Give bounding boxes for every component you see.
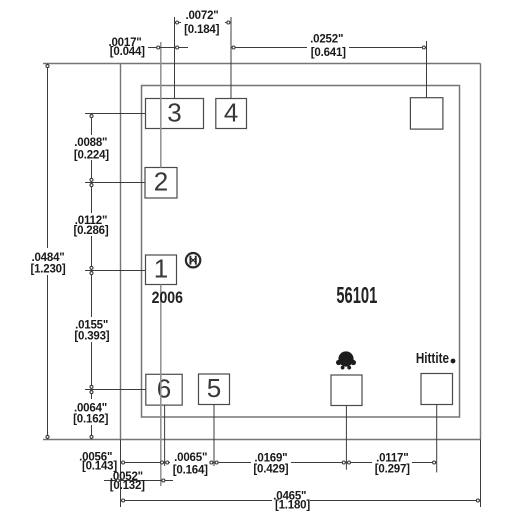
- dim line .0052 with tails: [104, 480, 173, 482]
- dimension text .0169 [0.429]: [251, 452, 291, 474]
- svg-text:3: 3: [167, 97, 181, 127]
- dimension text .0072 [0.184]: [181, 21, 225, 36]
- package outer edge (with top/bottom extension to left dimension): [43, 63, 481, 65]
- pad 1: [146, 254, 177, 285]
- arrows dim .0484: [46, 65, 49, 68]
- arrows dim .0072: [176, 21, 179, 24]
- arrows dim .0465: [122, 499, 125, 502]
- extension pad5 center: [213, 405, 215, 467]
- dim line .0465: [121, 500, 481, 502]
- extension pad6 center: [164, 405, 166, 466]
- extension pad top-right center: [426, 41, 428, 98]
- arrows dim .0052 (outside): [116, 479, 119, 482]
- dimension text .0465 [1.180]: [272, 490, 310, 510]
- dimension text .0088 [0.224]: [72, 135, 111, 160]
- svg-text:5: 5: [207, 373, 221, 403]
- extension pad bottom-right center: [436, 405, 438, 473]
- dim line .0484: [47, 64, 49, 440]
- svg-text:[0.429]: [0.429]: [253, 463, 288, 475]
- dimension text .0112 [0.286]: [72, 213, 111, 236]
- dimension text .0064 [0.162]: [69, 399, 112, 425]
- pad 2: [145, 167, 177, 198]
- arrows dim .0117: [348, 461, 351, 464]
- extension outer-left below: [120, 440, 122, 508]
- arrows dim .0065: [166, 461, 169, 464]
- centerline pad2 (upper): [160, 42, 162, 168]
- svg-text:[0.162]: [0.162]: [73, 413, 108, 425]
- pad top-right: [410, 98, 443, 129]
- arrows left chain: [90, 115, 93, 118]
- svg-text:[1.180]: [1.180]: [275, 500, 310, 512]
- extension pad4 center: [230, 17, 232, 99]
- svg-text:Hittite: Hittite: [416, 350, 450, 367]
- svg-text:56101: 56101: [336, 284, 377, 309]
- svg-text:.0065": .0065": [174, 452, 207, 464]
- svg-text:1: 1: [154, 254, 168, 284]
- svg-text:2006: 2006: [152, 289, 183, 307]
- arrows dim .0252: [232, 46, 235, 49]
- pad bottom-right: [421, 374, 453, 405]
- centerline pad1 (lower): [160, 285, 162, 487]
- svg-text:.0484": .0484": [31, 252, 64, 264]
- pad 4: [216, 97, 247, 128]
- arrows dim .0056: [122, 461, 125, 464]
- row extension pad1: [85, 270, 145, 272]
- extension outer-right below: [480, 440, 482, 508]
- row extension pad6: [85, 389, 145, 391]
- pad bottom-middle: [331, 375, 362, 406]
- arrows dim .0017 (outside): [157, 46, 160, 49]
- pad 5: [199, 373, 230, 404]
- bottom chain dim line (.0056/.0065/.0169/.0117): [121, 462, 437, 464]
- pad 6: [146, 374, 182, 406]
- extension pad bottom-middle center: [345, 406, 347, 470]
- svg-text:4: 4: [224, 97, 238, 127]
- svg-text:[0.044]: [0.044]: [110, 46, 145, 58]
- svg-text:.0252": .0252": [310, 33, 343, 45]
- row extension pad3: [85, 113, 145, 115]
- svg-text:2: 2: [154, 167, 168, 197]
- Hittite circled-H logo mark: [186, 253, 200, 267]
- row extension pad2: [85, 182, 145, 184]
- svg-text:[0.393]: [0.393]: [74, 331, 109, 343]
- pad 3: [146, 97, 204, 128]
- dimension text .0484 [1.230]: [27, 248, 73, 275]
- svg-text:[0.224]: [0.224]: [74, 149, 109, 161]
- die marking dot logo: [336, 351, 356, 369]
- svg-text:[1.230]: [1.230]: [30, 264, 65, 276]
- svg-text:.0088": .0088": [74, 137, 107, 149]
- dimension text .0065 [0.164]: [170, 449, 210, 476]
- svg-text:[0.286]: [0.286]: [73, 225, 108, 237]
- dim line .0072 top: [175, 22, 232, 24]
- dimension text .0155 [0.393]: [71, 317, 112, 342]
- arrows dim .0169: [215, 461, 218, 464]
- svg-text:[0.184]: [0.184]: [184, 24, 219, 36]
- dimension text .0117 [0.297]: [372, 452, 412, 474]
- svg-text:[0.641]: [0.641]: [311, 47, 346, 59]
- svg-text:[0.164]: [0.164]: [173, 465, 208, 477]
- extension pad3 center: [174, 17, 176, 99]
- svg-text:6: 6: [157, 374, 171, 404]
- dim line .0252: [231, 47, 427, 49]
- die inner edge rectangle: [142, 86, 460, 418]
- svg-text:[0.297]: [0.297]: [375, 463, 410, 475]
- left chain dimension line: [91, 114, 93, 440]
- svg-text:[0.132]: [0.132]: [110, 480, 145, 492]
- dimension text .0252 [0.641]: [307, 44, 349, 59]
- svg-text:.0072": .0072": [185, 10, 218, 22]
- dim line .0017 with tails: [148, 47, 188, 49]
